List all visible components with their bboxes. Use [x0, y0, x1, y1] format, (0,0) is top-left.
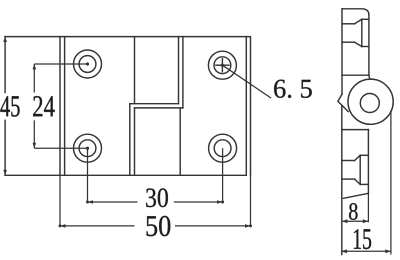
side view knuckle outer circle: [348, 79, 393, 124]
parting step upper horizontal H1: [130, 103, 179, 105]
hole top-left inner: [79, 56, 96, 73]
side view upper-left edge: [341, 9, 343, 94]
front view bottom edge: [5, 174, 246, 176]
front view left edge / dim 45 line lower segment: [4, 120, 6, 175]
arrow 15 left: [341, 249, 347, 253]
upper countersink head vertical: [361, 19, 363, 46]
dim 15 right extension from knuckle: [390, 110, 392, 255]
dim 24 leader to top-left hole center: [34, 63, 87, 65]
left leaf fold line 1: [59, 37, 61, 176]
dim 24 line bottom segment: [33, 120, 35, 148]
dim 50 line left segment: [60, 225, 135, 227]
arrow 30 right: [217, 200, 223, 204]
upper countersink cone bottom slant: [355, 42, 362, 46]
hole bottom-left inner: [79, 140, 96, 157]
parting step lower horizontal H2: [135, 107, 183, 109]
side view lower junction line: [342, 129, 369, 131]
dim 50 right extension along right edge: [250, 175, 252, 226]
text 50: [147, 216, 171, 236]
side view left V-notch: [338, 94, 348, 111]
dim 8 right extension: [367, 193, 369, 222]
arrow 45 top: [3, 37, 7, 42]
text 15: [354, 229, 371, 249]
dim 50 left extension from fold line: [59, 175, 61, 226]
arrow 24 top: [33, 64, 37, 69]
dim 15 line: [341, 250, 391, 252]
hole top-right inner: [214, 57, 231, 74]
dot top-right hole center: [221, 64, 224, 67]
lower countersink cone bottom slant: [355, 179, 361, 184]
dim 8 line: [342, 220, 369, 222]
dim 30 leader from bottom-left hole: [87, 148, 89, 202]
hole bottom-right inner: [214, 140, 231, 157]
parting line upper vertical at x=134.5: [134, 37, 136, 104]
parting lower vertical V2: [134, 108, 136, 175]
parting lower vertical M8: [179, 108, 181, 175]
hole top-right cross h: [216, 64, 229, 66]
dot 50 corner left: [59, 224, 62, 227]
text 45: [0, 96, 19, 116]
side view bottom slanted edge: [344, 193, 369, 198]
arrow 50 right: [245, 224, 251, 228]
dim 30 leader from bottom-right hole: [222, 148, 224, 202]
parting right vertical R1: [178, 37, 180, 104]
side view fillet from right edge to knuckle: [369, 75, 371, 79]
lower countersink cylinder top: [342, 160, 355, 162]
dim 24 leader to bottom-left hole center: [34, 147, 87, 149]
lower countersink head vertical: [359, 155, 361, 184]
arrow 15 right: [385, 249, 391, 253]
parting right vertical R2: [182, 37, 184, 108]
arrow 24 bottom: [33, 143, 37, 148]
dim 24 line top segment: [33, 64, 35, 93]
dot 30 corner left: [86, 201, 89, 204]
dim 30 line left segment: [88, 201, 138, 203]
side view lower-right edge: [367, 130, 369, 194]
arrow 8 right: [363, 219, 369, 223]
front view outer rectangle: [5, 37, 250, 176]
text 8: [349, 203, 357, 220]
side view upper junction line: [342, 74, 369, 76]
hole top-left outer: [74, 50, 102, 78]
upper countersink head top line: [362, 18, 369, 20]
dim 30 line right segment: [174, 201, 223, 203]
arrow 30 left: [88, 200, 94, 204]
side view upper-right edge: [368, 15, 370, 76]
upper countersink head bottom line: [362, 46, 369, 48]
dot top-left hole center: [86, 62, 89, 65]
text 24: [33, 96, 54, 116]
hole bottom-right outer: [209, 134, 237, 162]
dot 50 corner right: [249, 224, 252, 227]
arrow 8 left: [342, 219, 348, 223]
lower countersink head bottom line: [360, 183, 368, 185]
dim 50 line right segment: [175, 225, 251, 227]
dot bottom-left hole center: [86, 147, 89, 150]
side view top edge with rounded corner: [342, 9, 369, 15]
lower countersink cylinder bottom: [342, 178, 355, 180]
dim 6.5 diagonal leader: [222, 65, 271, 98]
left leaf fold line 2: [64, 37, 66, 176]
upper countersink cone top slant: [355, 19, 362, 24]
upper countersink cylinder bottom: [342, 41, 355, 43]
side view pin circle: [360, 94, 379, 113]
arrow 45 bottom: [3, 170, 7, 175]
upper countersink cylinder top: [342, 23, 355, 25]
side view lower-left edge: [341, 106, 343, 255]
right edge inner fold line: [245, 37, 247, 176]
lower countersink cone top slant: [355, 155, 361, 160]
lower countersink head top line: [360, 154, 368, 156]
arrow 50 left: [60, 224, 66, 228]
hole bottom-left outer: [74, 134, 102, 162]
parting lower vertical V1: [129, 104, 131, 176]
dot 30 corner right: [221, 201, 224, 204]
text 6.5: [274, 80, 312, 98]
hole top-right outer: [208, 51, 236, 79]
hole top-right cross v: [221, 59, 223, 72]
front view left edge / dim 45 line upper segment: [4, 37, 6, 93]
text 30: [146, 188, 168, 207]
